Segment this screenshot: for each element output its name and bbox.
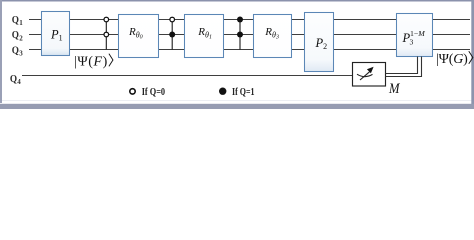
svg-text:1−M: 1−M: [410, 29, 425, 38]
svg-text:2: 2: [19, 34, 23, 42]
svg-text:|Ψ(F)〉: |Ψ(F)〉: [74, 54, 122, 70]
svg-text:4: 4: [17, 78, 21, 86]
svg-text:If Q=1: If Q=1: [232, 86, 255, 98]
svg-text:M: M: [388, 81, 401, 97]
svg-text:|Ψ(G)〉: |Ψ(G)〉: [436, 51, 474, 67]
svg-text:If Q=0: If Q=0: [142, 86, 166, 98]
svg-text:1: 1: [19, 19, 23, 27]
svg-text:3: 3: [410, 38, 414, 47]
svg-text:3: 3: [19, 50, 23, 58]
